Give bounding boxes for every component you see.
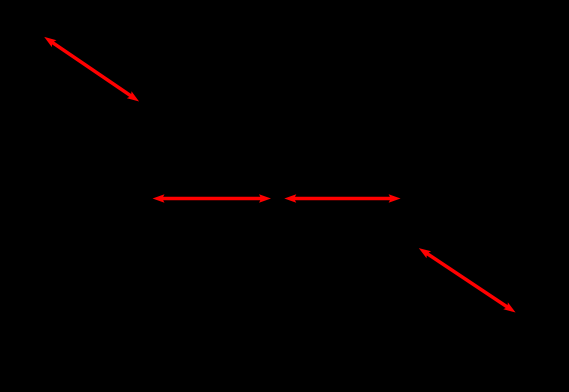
arrow B (left horizontal double arrow) [153, 194, 272, 202]
arrow A (top-left diagonal double arrow) [44, 37, 139, 102]
arrow C (right horizontal double arrow) [284, 194, 400, 202]
arrow D (bottom-right diagonal double arrow) [419, 248, 516, 312]
